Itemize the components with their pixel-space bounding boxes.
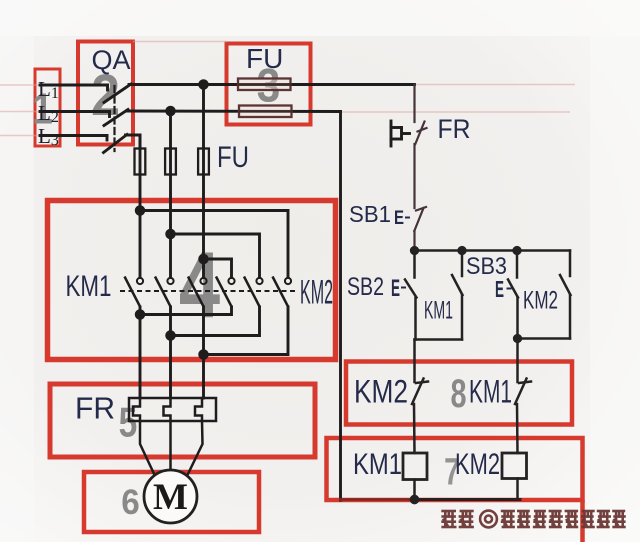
svg-text:E: E bbox=[394, 208, 404, 229]
wire through fuse 2 bbox=[240, 110, 291, 112]
contact KM2 pole3 bbox=[285, 278, 291, 284]
node crossover a bbox=[136, 207, 144, 215]
QA blade pole 2 bbox=[104, 110, 128, 126]
svg-text:SB2: SB2 bbox=[347, 273, 384, 301]
wire control top rail bbox=[415, 249, 571, 252]
wire L2 input row bbox=[40, 110, 110, 113]
svg-text:FR: FR bbox=[438, 114, 471, 144]
node SB3 branch bbox=[514, 247, 521, 254]
wire crossover c bbox=[204, 259, 232, 278]
wire phase V vertical bbox=[169, 111, 172, 278]
wire motor U bbox=[139, 307, 142, 398]
node KM1 aux branch bbox=[459, 247, 466, 254]
node lower b bbox=[167, 332, 175, 340]
wire lower join a bbox=[140, 307, 232, 315]
contact SB2 NO bbox=[413, 251, 416, 278]
svg-text:E: E bbox=[391, 275, 400, 302]
contactor main contacts KM1 (3) and KM2 (3) bbox=[120, 277, 297, 308]
svg-text:FU: FU bbox=[217, 141, 249, 174]
contact KM1 NC interlock bbox=[519, 382, 531, 384]
FR trip symbol bbox=[391, 121, 410, 146]
wire to KM1 interlock bbox=[516, 339, 519, 383]
wire control feed from L1 bbox=[413, 85, 415, 123]
fuse FU line fuse 2 bbox=[239, 106, 292, 118]
wire L3 input row bbox=[40, 134, 107, 137]
contact KM2 aux NO bbox=[569, 251, 572, 277]
thermal relay FR heater block bbox=[129, 398, 216, 478]
wire lower join c bbox=[204, 307, 289, 355]
QA blade pole 1 bbox=[104, 84, 131, 103]
fuse FU branch fuse 2 bbox=[165, 149, 176, 175]
svg-text:6: 6 bbox=[121, 483, 139, 522]
FR heater element 3 bbox=[195, 398, 202, 421]
wire crossover b bbox=[171, 234, 260, 278]
node coil KM1 bottom bbox=[411, 496, 418, 503]
coil KM2 bbox=[502, 453, 527, 479]
svg-text:KM2: KM2 bbox=[354, 374, 408, 410]
svg-text:E: E bbox=[495, 276, 504, 302]
wire SB1 to node bbox=[413, 231, 415, 251]
wire phase U vertical bbox=[139, 135, 142, 278]
node lower a bbox=[136, 311, 144, 319]
wire to motor W bbox=[186, 421, 203, 478]
contact KM2 NC interlock bbox=[416, 382, 428, 384]
contact KM2 pole2 bbox=[256, 278, 262, 284]
contact SB1 NC bbox=[416, 207, 426, 211]
svg-text:M: M bbox=[153, 477, 188, 518]
wire L2 row to right bbox=[127, 110, 341, 113]
contact KM1 pole1 bbox=[137, 278, 143, 284]
fuse FU branch fuse 3 bbox=[198, 149, 209, 175]
QA linkage dashed bbox=[113, 86, 115, 151]
svg-text:KM2: KM2 bbox=[300, 274, 333, 312]
wire L1 row to right bbox=[129, 83, 415, 86]
svg-text:SB1: SB1 bbox=[349, 201, 391, 227]
faint photo ghost lines bbox=[0, 42, 575, 136]
contact KM1 pole3 bbox=[200, 278, 206, 284]
red box 1 (L1 L2 L3 terminals) bbox=[35, 69, 60, 146]
wire FR to SB1 bbox=[413, 144, 415, 208]
coil KM1 bbox=[403, 453, 427, 480]
FR heater box bbox=[129, 398, 216, 421]
FR heater element 1 bbox=[133, 398, 140, 421]
red box 2 (QA switch) bbox=[78, 42, 133, 145]
wire bottom return rail bbox=[341, 498, 416, 501]
wire L1 input row bbox=[40, 84, 108, 87]
node above interlock bbox=[514, 335, 521, 342]
red box 8 (interlock contacts) bbox=[346, 362, 572, 425]
contact KM2 pole1 bbox=[228, 278, 234, 284]
node crossover b bbox=[167, 230, 175, 238]
node lower c bbox=[200, 351, 208, 359]
wire motor W bbox=[202, 307, 205, 398]
wire phase W vertical bbox=[202, 85, 205, 278]
node after SB1 bbox=[411, 247, 418, 254]
svg-text:FU: FU bbox=[246, 43, 283, 74]
svg-text:KM2: KM2 bbox=[523, 287, 558, 315]
svg-text:4: 4 bbox=[179, 232, 220, 337]
red box 3 (FU line fuses) bbox=[227, 44, 311, 125]
wire to motor V bbox=[169, 421, 172, 470]
node L2 drop bbox=[167, 107, 175, 115]
svg-text:KM1: KM1 bbox=[469, 374, 512, 410]
QA blade pole 3 bbox=[104, 135, 128, 153]
svg-text:KM1: KM1 bbox=[424, 297, 453, 325]
contact FR NC bbox=[415, 122, 424, 145]
fuse FU line fuse 1 bbox=[238, 79, 291, 91]
linkage dashed KM1-KM2 bbox=[120, 290, 297, 292]
svg-text:QA: QA bbox=[92, 45, 131, 75]
contact KM1 pole2 bbox=[167, 278, 173, 284]
red box 7 (coils) bbox=[327, 438, 583, 500]
svg-text:KM1: KM1 bbox=[353, 448, 402, 481]
wire KM1 aux join bbox=[415, 338, 463, 341]
node L1 drop bbox=[200, 81, 208, 89]
red box 5 (FR heater) bbox=[50, 384, 315, 457]
wire to motor U bbox=[140, 421, 156, 478]
motor M bbox=[144, 470, 197, 523]
contact KM1 aux NO bbox=[461, 251, 464, 277]
wire motor V bbox=[169, 307, 172, 398]
wire through fuse 1 bbox=[239, 83, 290, 85]
wire crossover a bbox=[140, 211, 288, 278]
red box 4 (KM1/KM2 main contacts) bbox=[48, 201, 336, 360]
wire lower join b bbox=[171, 307, 260, 336]
FR heater element 2 bbox=[164, 398, 171, 421]
wire L3 out bbox=[126, 135, 141, 149]
red box 6 (motor) bbox=[84, 472, 259, 532]
red box 7 right edge extension bbox=[580, 500, 585, 542]
svg-text:KM1: KM1 bbox=[66, 270, 112, 303]
svg-text:8: 8 bbox=[450, 371, 466, 416]
svg-text:FR: FR bbox=[75, 391, 115, 426]
wire KM2 aux join bbox=[518, 337, 571, 340]
wire L2 drop to control bbox=[339, 112, 342, 501]
svg-text:KM2: KM2 bbox=[455, 448, 500, 481]
fuse FU branch fuse 1 bbox=[135, 149, 146, 175]
wire to KM2 interlock bbox=[413, 340, 416, 383]
node crossover c bbox=[200, 255, 208, 263]
contact SB3 NO bbox=[516, 251, 519, 278]
